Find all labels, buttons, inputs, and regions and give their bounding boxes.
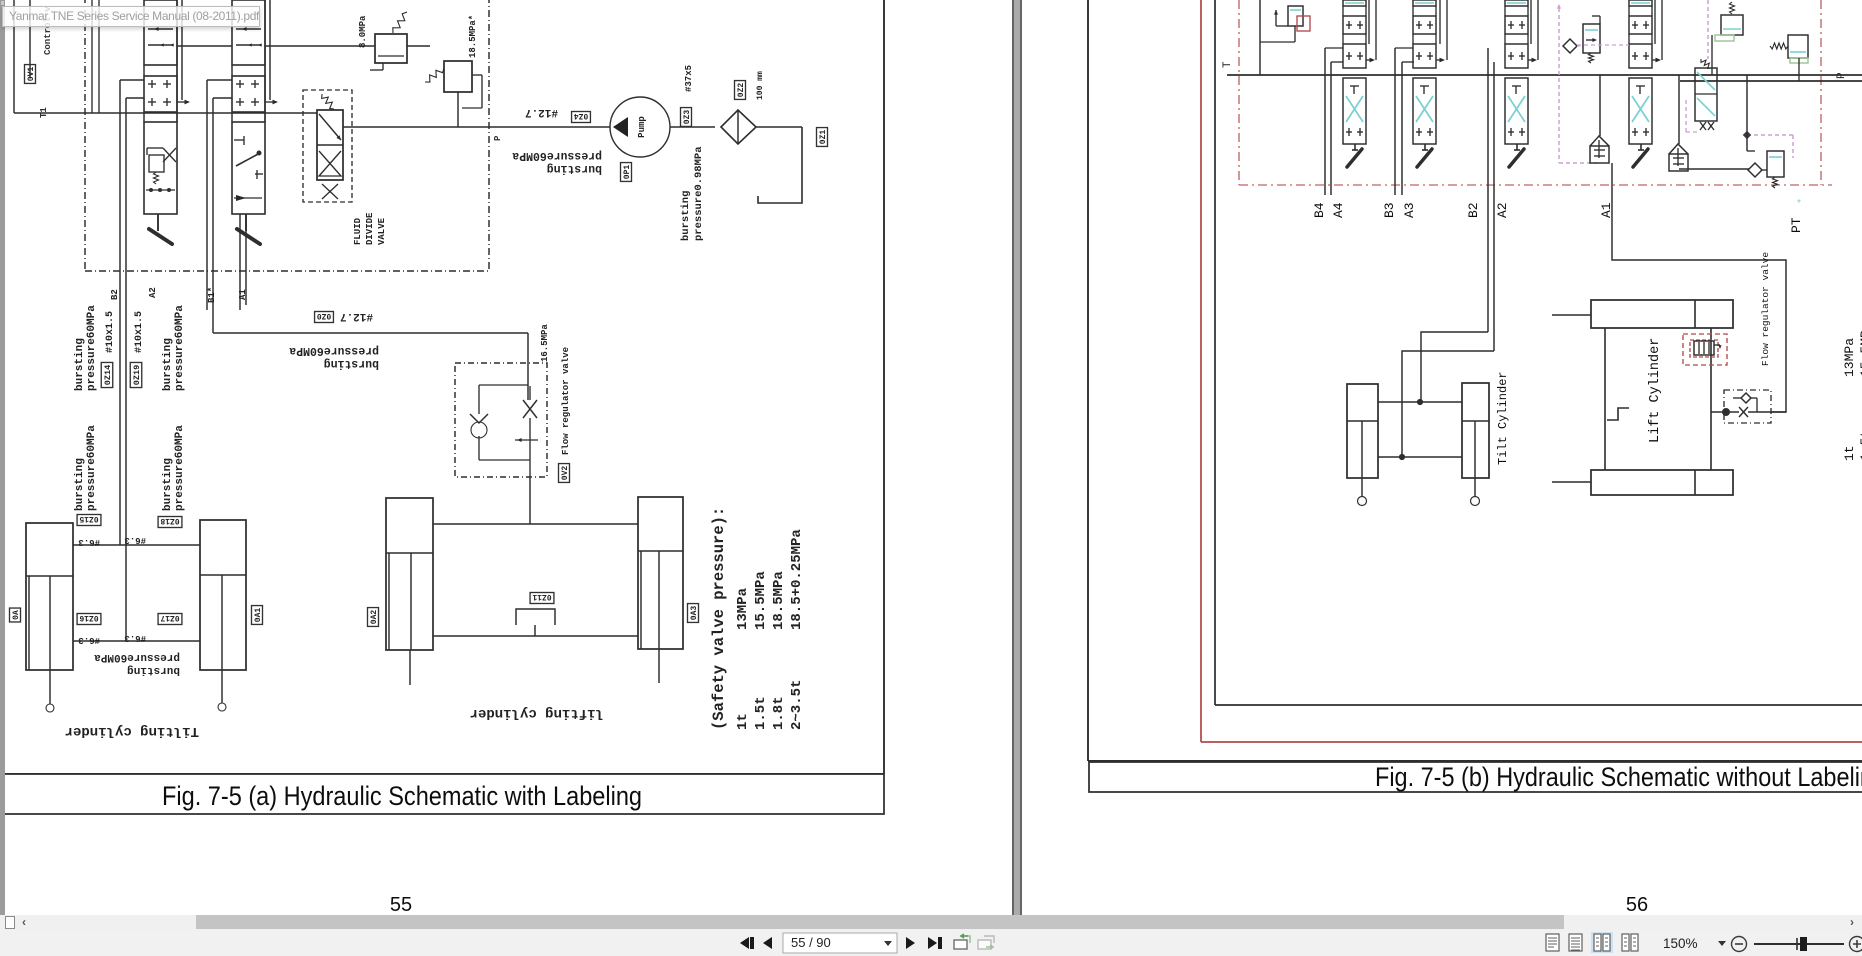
svg-text:Fig. 7-5 (a) Hydraulic Schemat: Fig. 7-5 (a) Hydraulic Schematic with La…: [162, 781, 642, 811]
svg-text:P: P: [493, 135, 503, 141]
svg-text:A1: A1: [238, 289, 248, 300]
svg-text:PT: PT: [1789, 217, 1804, 233]
svg-text:#12.7: #12.7: [340, 310, 373, 322]
svg-text:pressure60MPa: pressure60MPa: [174, 425, 186, 511]
svg-text:#10x1.5: #10x1.5: [134, 311, 145, 353]
svg-text:2~3.5t: 2~3.5t: [789, 680, 805, 730]
svg-text:P: P: [1836, 72, 1848, 79]
svg-text:0A3: 0A3: [690, 606, 699, 621]
svg-text:0Z16: 0Z16: [79, 613, 98, 622]
svg-text:bursting: bursting: [74, 458, 86, 511]
svg-text:#10x1.5: #10x1.5: [105, 311, 116, 353]
svg-text:1t: 1t: [1842, 445, 1857, 461]
svg-text:55: 55: [390, 894, 412, 916]
svg-text:0V2: 0V2: [561, 466, 570, 481]
svg-text:T: T: [1222, 61, 1234, 68]
svg-text:pressure60MPa: pressure60MPa: [94, 651, 180, 663]
svg-text:bursting: bursting: [324, 357, 379, 370]
svg-text:8.0MPa: 8.0MPa: [358, 15, 368, 48]
svg-text:18.5MPa*: 18.5MPa*: [468, 15, 478, 58]
svg-text:0V1: 0V1: [27, 67, 36, 82]
svg-text:DIVIDE: DIVIDE: [365, 212, 375, 245]
svg-text:Tilt Cylinder: Tilt Cylinder: [1496, 371, 1510, 465]
svg-text:18.5+0.25MPa: 18.5+0.25MPa: [789, 529, 805, 630]
svg-text:1.8t: 1.8t: [771, 696, 787, 730]
svg-text:#6.3: #6.3: [124, 633, 146, 643]
svg-text:pressure60MPa: pressure60MPa: [289, 344, 379, 357]
svg-text:0Z18: 0Z18: [160, 516, 179, 525]
svg-text:0Z15: 0Z15: [79, 514, 98, 523]
svg-text:Fig. 7-5 (b) Hydraulic Schemat: Fig. 7-5 (b) Hydraulic Schematic without…: [1375, 762, 1862, 792]
svg-text:bursting: bursting: [127, 664, 180, 676]
svg-text:150%: 150%: [1663, 936, 1698, 951]
svg-text:16.5MPa: 16.5MPa: [540, 324, 550, 362]
svg-text:B1*: B1*: [207, 287, 217, 303]
svg-text:B3: B3: [1382, 202, 1397, 218]
svg-text:0P1: 0P1: [623, 165, 632, 180]
svg-text:0Z1: 0Z1: [819, 130, 828, 145]
svg-text:pressure60MPa: pressure60MPa: [174, 305, 186, 391]
svg-text:B2: B2: [1466, 202, 1481, 218]
svg-text:pressure60MPa: pressure60MPa: [86, 425, 98, 511]
svg-text:1.5t: 1.5t: [1858, 430, 1862, 461]
svg-text:bursting: bursting: [162, 338, 174, 391]
svg-text:100 mm: 100 mm: [756, 71, 765, 100]
svg-text:Pump: Pump: [637, 116, 647, 138]
svg-text:#6.3: #6.3: [124, 535, 146, 545]
svg-text:B2: B2: [110, 289, 120, 300]
svg-text:bursting: bursting: [162, 458, 174, 511]
svg-text:0Z17: 0Z17: [160, 613, 179, 622]
svg-text:0Z11: 0Z11: [532, 592, 551, 601]
svg-text:A2: A2: [148, 287, 158, 298]
svg-text:A3: A3: [1402, 202, 1417, 218]
svg-text:15.5MPa: 15.5MPa: [1858, 322, 1862, 377]
svg-text:#12.7: #12.7: [525, 106, 558, 118]
svg-text:0Z4: 0Z4: [574, 111, 589, 120]
svg-text:13MPa: 13MPa: [1842, 338, 1857, 377]
svg-text:#6.3: #6.3: [78, 537, 100, 547]
svg-text:pressure60MPa: pressure60MPa: [86, 305, 98, 391]
svg-text:#6.3: #6.3: [78, 635, 100, 645]
svg-text:(Safety valve pressure):: (Safety valve pressure):: [710, 507, 728, 730]
svg-text:#37x5: #37x5: [684, 65, 694, 92]
svg-text:0Z19: 0Z19: [132, 365, 142, 385]
svg-text:lifting cylinder: lifting cylinder: [470, 705, 604, 721]
svg-text:A2: A2: [1495, 202, 1510, 218]
svg-text:pressure60MPa: pressure60MPa: [512, 149, 602, 162]
svg-text:Flow regulator valve: Flow regulator valve: [1760, 252, 1771, 366]
svg-text:A4: A4: [1331, 202, 1346, 218]
svg-text:0A2: 0A2: [370, 610, 379, 625]
svg-text:0Z14: 0Z14: [103, 365, 113, 385]
svg-text:B4: B4: [1312, 202, 1327, 218]
svg-text:0Z0: 0Z0: [317, 311, 332, 320]
svg-text:18.5MPa: 18.5MPa: [771, 571, 787, 630]
svg-text:0Z2: 0Z2: [737, 83, 746, 98]
svg-text:bursting: bursting: [547, 162, 602, 175]
svg-text:T1: T1: [39, 107, 49, 118]
svg-text:bursting: bursting: [680, 191, 692, 241]
svg-text:FLUID: FLUID: [353, 217, 363, 245]
svg-text:1.5t: 1.5t: [753, 696, 769, 730]
svg-text:VALVE: VALVE: [377, 217, 387, 245]
svg-text:0Z3: 0Z3: [683, 110, 692, 125]
svg-text:0A: 0A: [12, 610, 21, 620]
svg-text:bursting: bursting: [74, 338, 86, 391]
svg-text:1t: 1t: [735, 713, 751, 730]
svg-text:55 / 90: 55 / 90: [791, 935, 831, 950]
svg-text:Flow regulator valve: Flow regulator valve: [561, 347, 571, 455]
svg-text:56: 56: [1626, 894, 1648, 916]
svg-text:A1: A1: [1599, 202, 1614, 218]
svg-text:*: *: [1797, 198, 1801, 209]
svg-text:Lift Cylinder: Lift Cylinder: [1648, 338, 1663, 443]
svg-text:0A1: 0A1: [254, 608, 263, 623]
svg-text:13MPa: 13MPa: [735, 587, 751, 630]
svg-text:pressure0.98MPa: pressure0.98MPa: [693, 146, 705, 241]
svg-text:Tilting cylinder: Tilting cylinder: [65, 723, 199, 739]
svg-text:15.5MPa: 15.5MPa: [753, 571, 769, 630]
